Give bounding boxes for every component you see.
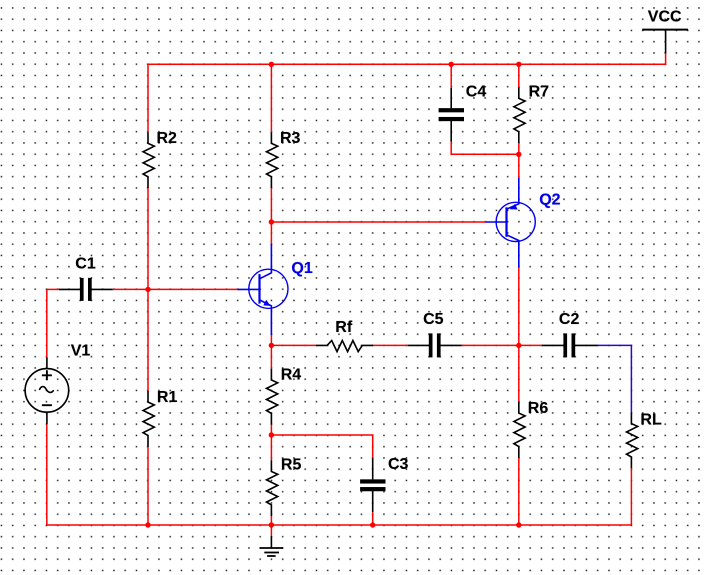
junction R1 bottom xyxy=(145,522,150,527)
wire C1 right to Q1 base xyxy=(113,288,239,290)
junction Q1 emitter / Rf node xyxy=(269,343,274,348)
capacitor C3 xyxy=(360,458,385,512)
wire V1 corner to C1 left xyxy=(47,288,59,290)
junction C1 output node xyxy=(145,287,150,292)
capacitor C4 xyxy=(439,88,464,142)
wire Q1 emitter to Rf node xyxy=(270,334,272,369)
junction C4 top xyxy=(449,62,454,67)
svg-text:R7: R7 xyxy=(529,84,550,101)
junction R5 bottom / ground xyxy=(269,522,274,527)
svg-text:VCC: VCC xyxy=(648,8,682,25)
VCC power symbol xyxy=(642,30,688,54)
wire R1 bottom to bottom rail xyxy=(147,447,149,525)
wire R3 top lead xyxy=(270,64,272,132)
wire R3 bottom to Q1 collector xyxy=(270,188,272,245)
wire bottom rail xyxy=(47,524,632,526)
svg-text:R2: R2 xyxy=(157,130,178,147)
capacitor C1 xyxy=(59,278,113,301)
junction R3 bottom node xyxy=(269,219,274,224)
wire C1 node to V1 top xyxy=(46,289,48,357)
svg-text:R5: R5 xyxy=(281,456,302,473)
svg-text:C2: C2 xyxy=(559,311,580,328)
svg-text:Q1: Q1 xyxy=(291,260,312,277)
svg-text:R3: R3 xyxy=(280,130,301,147)
svg-text:RL: RL xyxy=(640,411,662,428)
resistor RL xyxy=(627,412,638,468)
svg-text:R1: R1 xyxy=(157,389,178,406)
transistor Q1 (NPN) xyxy=(238,244,289,335)
wire R4 bottom to R5 top xyxy=(270,425,272,461)
wire R2 bottom to R1 top (through C1 node) xyxy=(147,188,149,391)
svg-text:Rf: Rf xyxy=(335,319,353,336)
resistor R3 xyxy=(267,132,278,188)
transistor Q2 (PNP) xyxy=(486,178,536,268)
capacitor C5 xyxy=(408,333,462,357)
wire Rf right to C5 left xyxy=(373,344,408,346)
resistor R5 xyxy=(267,460,278,516)
wire R7 top lead xyxy=(518,64,520,87)
svg-text:C3: C3 xyxy=(388,456,409,473)
wire R2 top lead xyxy=(147,64,149,132)
wire R4 bottom node to C3 top xyxy=(271,435,372,458)
resistor Rf xyxy=(316,341,373,352)
wire R7 bottom node to Q2 emitter xyxy=(518,143,520,179)
svg-text:R6: R6 xyxy=(528,400,549,417)
resistor R7 xyxy=(514,87,525,143)
svg-text:Q2: Q2 xyxy=(539,192,560,209)
wire C3 bottom stub xyxy=(372,512,374,525)
AC source V1 xyxy=(25,357,69,424)
junction C3 bottom xyxy=(370,522,375,527)
wire C5 right to C2 left (through R6 node) xyxy=(462,344,542,346)
wire blue net C2 to RL top xyxy=(598,345,632,412)
wire Rf node to Rf left lead xyxy=(271,344,316,346)
junction R4 bottom / C3 node xyxy=(269,432,274,437)
resistor R2 xyxy=(143,132,154,188)
svg-text:R4: R4 xyxy=(281,366,302,383)
wire Q2 base from R3 bottom node xyxy=(271,221,486,223)
resistor R4 xyxy=(267,369,278,425)
wire C4 top lead xyxy=(450,64,452,87)
wire RL bottom stub xyxy=(630,468,632,525)
wire V1 bottom to bottom rail xyxy=(46,424,48,525)
svg-text:C4: C4 xyxy=(466,84,487,101)
ground stub red xyxy=(270,525,272,536)
junction R6 bottom xyxy=(516,522,521,527)
junction C4/R7 bottom xyxy=(516,152,521,157)
resistor R6 xyxy=(514,402,525,458)
svg-text:V1: V1 xyxy=(71,343,91,360)
wire Q2 collector to R6 top (through C5 node) xyxy=(518,267,520,402)
wire R6 bottom to bottom rail xyxy=(518,458,520,525)
ground symbol xyxy=(260,536,283,556)
svg-text:C5: C5 xyxy=(423,311,444,328)
junction C5 / R6 node xyxy=(516,343,521,348)
svg-text:C1: C1 xyxy=(75,256,96,273)
junction R3 top xyxy=(269,62,274,67)
resistor R1 xyxy=(143,391,154,447)
junction R7 top xyxy=(516,62,521,67)
wire R5 bottom to bottom rail xyxy=(270,516,272,525)
capacitor C2 xyxy=(542,333,598,357)
wire top rail from R2 to VCC stub xyxy=(148,54,666,65)
wire C4 bottom to R7 bottom node xyxy=(451,142,519,155)
